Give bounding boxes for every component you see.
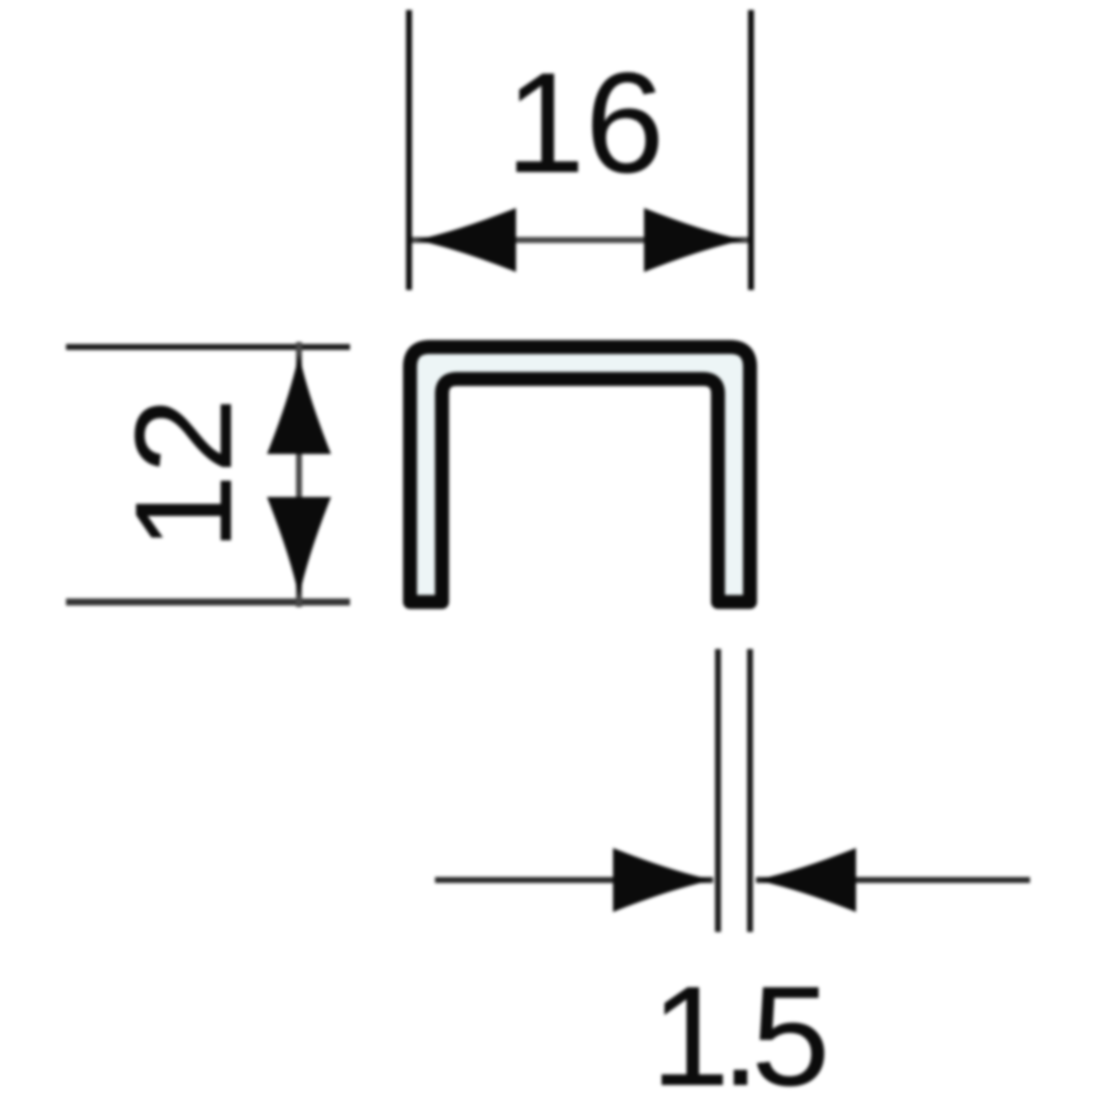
svg-text:1.5: 1.5 (651, 957, 825, 1100)
svg-text:16: 16 (505, 44, 664, 203)
svg-text:12: 12 (107, 397, 261, 551)
